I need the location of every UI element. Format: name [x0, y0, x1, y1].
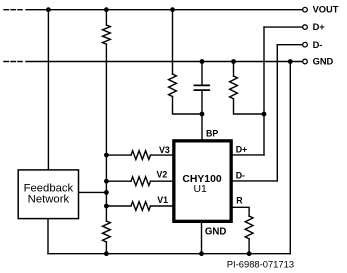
- svg-text:Feedback: Feedback: [24, 182, 74, 194]
- terminal VOUT: [303, 7, 308, 12]
- resistor center top: [103, 25, 111, 44]
- node VOUT rail / left vertical: [46, 7, 51, 12]
- svg-text:V1: V1: [157, 195, 168, 205]
- wire BP-left bottom: [173, 97, 203, 115]
- wire feedback output row: [79, 191, 107, 193]
- svg-text:D-: D-: [236, 171, 245, 181]
- wire BP-left branch from VOUT rail: [172, 10, 174, 74]
- wire V3 row: [106, 154, 172, 156]
- capacitor C-BP top lead: [201, 62, 203, 85]
- svg-text:D-: D-: [313, 40, 323, 50]
- svg-text:PI-6988-071713: PI-6988-071713: [227, 259, 294, 270]
- resistor center bottom: [103, 221, 111, 242]
- node GND rail / GND vertical: [288, 59, 293, 64]
- node bottom rail / center rail: [104, 251, 109, 256]
- wire center rail top: [105, 10, 107, 25]
- node center rail / V3: [104, 153, 109, 158]
- resistor pull-up on D+: [230, 76, 238, 99]
- terminal D+: [303, 25, 308, 30]
- resistor V1: [131, 202, 151, 211]
- wire D- terminal row: [277, 44, 302, 46]
- terminal D-: [303, 42, 308, 47]
- svg-text:D+: D+: [313, 22, 326, 32]
- wire center rail middle: [105, 44, 107, 221]
- svg-text:V3: V3: [159, 145, 170, 155]
- svg-text:R: R: [236, 196, 243, 206]
- node VOUT rail / center rail: [104, 7, 109, 12]
- svg-text:BP: BP: [206, 128, 218, 138]
- svg-text:U1: U1: [194, 184, 208, 195]
- wire pull-up bottom to D+ line: [234, 99, 265, 114]
- wire D- vertical: [276, 45, 278, 181]
- node VOUT rail / BP-left branch: [170, 7, 175, 12]
- node GND rail / pull-up: [231, 59, 236, 64]
- node GND rail / capacitor: [200, 59, 205, 64]
- svg-text:GND: GND: [205, 226, 227, 237]
- resistor V3: [131, 151, 151, 160]
- svg-text:Network: Network: [28, 194, 70, 206]
- wire V1 row: [106, 205, 172, 207]
- wire feedback box bottom to rail: [47, 219, 49, 254]
- node BP junction: [200, 112, 205, 117]
- wire D+ vertical: [263, 27, 265, 155]
- wire D+ pin: [232, 154, 264, 156]
- node pull-up / D+ line: [262, 112, 267, 117]
- wire D+ terminal row: [264, 26, 303, 28]
- wire center rail bottom: [105, 242, 107, 254]
- wire R bottom: [248, 239, 250, 254]
- node bottom rail / U1 GND: [199, 251, 204, 256]
- resistor BP-left: [169, 74, 177, 97]
- capacitor C-BP bottom lead / BP pin wire: [201, 90, 203, 139]
- wire pull-up branch from GND rail: [233, 62, 235, 77]
- capacitor C-BP plates: [194, 85, 209, 90]
- wire GND rail dashed stub: [4, 61, 22, 63]
- node center rail / feedback: [104, 190, 109, 195]
- resistor R external: [245, 216, 253, 239]
- node center rail / V1: [104, 204, 109, 209]
- wire bottom rail: [48, 253, 290, 255]
- wire D- pin: [232, 180, 277, 182]
- wire VOUT rail: [26, 9, 303, 11]
- wire GND pin of U1: [201, 222, 203, 253]
- wire left vertical to feedback box: [47, 10, 49, 170]
- svg-text:GND: GND: [313, 57, 334, 67]
- terminal GND: [303, 59, 308, 64]
- svg-text:VOUT: VOUT: [313, 4, 339, 14]
- node bottom rail / R: [247, 251, 252, 256]
- wire GND rail: [26, 61, 303, 63]
- svg-text:D+: D+: [236, 144, 248, 154]
- resistor V2: [131, 177, 151, 186]
- wire VOUT rail dashed stub: [4, 9, 22, 11]
- wire V2 row: [106, 180, 172, 182]
- node center rail / V2: [104, 179, 109, 184]
- box Feedback Network: [18, 170, 78, 219]
- wire GND vertical right: [289, 62, 291, 254]
- op-amp U1 CHY100 body: [174, 141, 231, 222]
- svg-text:V2: V2: [157, 170, 168, 180]
- wire R pin: [232, 207, 249, 216]
